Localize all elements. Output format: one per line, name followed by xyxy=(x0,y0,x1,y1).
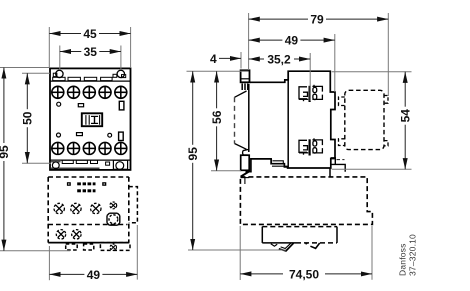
small slot row1 xyxy=(78,104,83,107)
auxiliary block dashed (side) xyxy=(345,90,384,149)
dimension 56 text xyxy=(210,108,224,126)
dimension 56 ext line bottom xyxy=(211,170,241,172)
dimension 50 ext lines xyxy=(22,72,50,74)
label window xyxy=(82,113,102,126)
DIN rail profile top diagonal xyxy=(235,91,247,97)
relay dash grid row2 xyxy=(77,189,95,192)
front body outline xyxy=(50,68,131,169)
relay dashed divider xyxy=(48,224,127,226)
dimension 74,50 line xyxy=(240,273,372,275)
screw row 2 xyxy=(52,142,127,154)
relay small X-screw xyxy=(110,202,117,209)
dimension 49 (front) ext lines xyxy=(48,246,50,280)
dimension 45 line xyxy=(49,33,130,35)
dimension 56 line xyxy=(216,71,218,170)
dimension 49 (side) line xyxy=(249,39,335,41)
terminal clamp glyph bottom xyxy=(299,138,322,155)
lower rear terminal cover xyxy=(331,158,345,172)
bottom strip inner line xyxy=(51,167,100,169)
svg-text:35: 35 xyxy=(84,45,98,59)
dimension 95 (side) ext lines xyxy=(187,70,249,72)
aux block right bump bottom xyxy=(384,141,388,146)
tall slot right row1 xyxy=(119,101,124,110)
dimension 4 ext line xyxy=(240,52,242,69)
svg-text:49: 49 xyxy=(285,34,299,48)
overload relay dashed outline (front) xyxy=(48,177,129,243)
relay bottom tab 2 dashed xyxy=(84,244,94,250)
tall slot right row2 xyxy=(119,132,124,140)
dimension 95 (side) line xyxy=(192,71,194,250)
aux block left hook top xyxy=(339,97,345,106)
relay lower X-screw 1 xyxy=(56,230,65,239)
terminal clamp glyph top xyxy=(299,85,322,102)
bottom strip tabs xyxy=(62,160,73,163)
relay X-screw 1 xyxy=(54,203,64,213)
DIN rail profile bottom diagonal xyxy=(235,144,247,150)
small indicator circle row2 right xyxy=(108,133,112,137)
dimension 35 ext lines xyxy=(59,46,61,71)
dimension 49 (front) line xyxy=(49,273,137,275)
dimension 35,2 ext line xyxy=(309,53,311,101)
relay right protrusion dashed xyxy=(129,187,138,223)
relay top icon: right filled square xyxy=(102,182,106,186)
dimension 49/79 ext line left xyxy=(248,13,250,70)
small slot row2 xyxy=(77,133,83,136)
dimension 54 ext lines xyxy=(332,71,412,73)
svg-text:74,50: 74,50 xyxy=(289,267,319,281)
dimension 4 leader line xyxy=(219,57,241,59)
relay X-screw 3 xyxy=(91,203,101,213)
relay X-screw 2 xyxy=(71,203,81,213)
svg-text:79: 79 xyxy=(310,13,324,27)
relay bottom right dashed box xyxy=(100,243,130,251)
X-screw in bottom box xyxy=(110,244,116,250)
bottom DIN clip box xyxy=(241,155,250,170)
small indicator circle row2 left xyxy=(57,133,61,137)
dimension 74,50 ext lines xyxy=(239,226,241,280)
dimension 95 (front) ext lines xyxy=(0,67,50,69)
bottom notch tray xyxy=(272,159,288,166)
dimension 95 (front) text xyxy=(0,143,11,161)
relay dashed outline (side) xyxy=(240,177,372,225)
small indicator circle row1 xyxy=(57,102,61,106)
dimension 50 text xyxy=(21,109,35,127)
body-to-rail face line xyxy=(248,84,250,152)
relay bottom tab 1 dashed xyxy=(66,244,78,250)
relay foot block xyxy=(261,227,263,243)
relay reset square with circle xyxy=(107,213,120,225)
foot hook left xyxy=(279,243,294,251)
bottom strip line xyxy=(50,159,131,161)
left mounting clip circle xyxy=(56,70,63,77)
clip comb ticks xyxy=(241,84,243,91)
dimension 35 line xyxy=(60,51,121,53)
dimension 49 (side) ext line xyxy=(334,34,336,92)
top strip tabs xyxy=(53,77,65,80)
screw row 1 xyxy=(52,86,127,98)
dimension 54 line xyxy=(404,72,406,170)
svg-text:54: 54 xyxy=(399,109,413,123)
dimension 54 text xyxy=(399,107,413,125)
rail left edge dashed xyxy=(234,97,236,143)
top strip line xyxy=(50,80,131,82)
body right edge lower to relay xyxy=(329,168,331,177)
svg-text:37–320.10: 37–320.10 xyxy=(408,234,418,276)
svg-text:45: 45 xyxy=(83,27,97,41)
right mounting clip circle xyxy=(117,70,124,77)
dimension 79 ext line right xyxy=(387,13,389,96)
dimension 95 (front) line xyxy=(3,68,5,251)
relay top icon: left filled square xyxy=(67,182,71,186)
bottom strip right clip xyxy=(113,160,127,169)
dimension 50 line xyxy=(26,73,28,163)
dimension 35,2 line xyxy=(249,58,311,60)
dimension 79 line xyxy=(249,18,389,20)
svg-text:Danfoss: Danfoss xyxy=(398,243,408,276)
side body outline xyxy=(246,71,336,172)
svg-text:50: 50 xyxy=(21,111,35,125)
svg-text:56: 56 xyxy=(210,110,224,124)
top DIN clip box xyxy=(241,70,250,82)
svg-text:95: 95 xyxy=(0,145,11,159)
svg-text:35,2: 35,2 xyxy=(267,53,291,67)
aux block left hook bottom xyxy=(339,139,345,146)
relay dash grid row1 xyxy=(77,182,95,185)
relay bottom solid edge xyxy=(48,242,129,244)
dimension 45 ext lines xyxy=(48,27,50,68)
svg-text:95: 95 xyxy=(186,147,200,161)
foot hook right xyxy=(310,243,319,248)
rail bottom hook xyxy=(243,149,250,155)
bottom strip left clip xyxy=(52,162,59,169)
dimension 95 (side) text xyxy=(186,145,200,163)
svg-text:49: 49 xyxy=(87,268,101,282)
relay lower X-screw 2 xyxy=(72,230,81,239)
aux block right bump top xyxy=(384,96,388,104)
body front/rear divider line xyxy=(287,71,289,168)
svg-text:4: 4 xyxy=(210,52,217,66)
